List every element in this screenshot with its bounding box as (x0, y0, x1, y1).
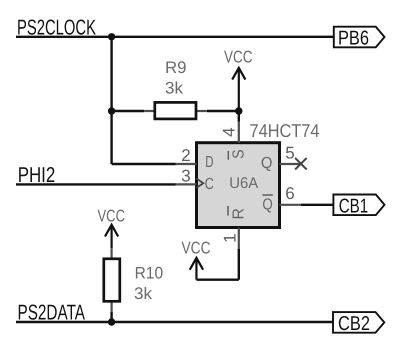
resistor R10 (104, 248, 120, 312)
wire (238, 249, 240, 280)
svg-text:U6A: U6A (229, 175, 259, 192)
wire (238, 111, 240, 122)
svg-text:S: S (231, 149, 248, 159)
svg-text:R10: R10 (135, 264, 164, 283)
wire (207, 110, 239, 112)
wire (112, 163, 176, 165)
svg-text:VCC: VCC (98, 207, 126, 226)
svg-text:PB6: PB6 (338, 27, 369, 49)
svg-text:R9: R9 (165, 58, 187, 77)
flip-flop U6A body (197, 143, 280, 228)
pin name S with overline (228, 149, 247, 159)
svg-text:74HCT74: 74HCT74 (250, 120, 320, 141)
wire (112, 110, 145, 112)
svg-text:3: 3 (181, 167, 190, 186)
svg-text:6: 6 (285, 184, 294, 203)
pin 3 C stub (176, 183, 197, 185)
power VCC middle (182, 238, 211, 279)
svg-text:D: D (205, 154, 213, 171)
pin 6 Qbar stub (280, 204, 301, 206)
wire (16, 321, 333, 323)
svg-text:R: R (231, 208, 248, 220)
pin name Qbar (262, 195, 272, 213)
junction (108, 33, 115, 40)
power VCC left (98, 207, 126, 249)
power VCC top (224, 48, 253, 112)
svg-text:5: 5 (285, 144, 294, 163)
pin 4 S stub (238, 122, 240, 143)
junction (108, 107, 115, 114)
pin 5 Q stub (280, 163, 301, 165)
svg-text:1: 1 (221, 233, 240, 242)
wire (110, 37, 112, 164)
wire (110, 312, 112, 322)
wire (16, 183, 176, 185)
svg-text:4: 4 (220, 127, 239, 136)
svg-text:VCC: VCC (224, 48, 253, 67)
svg-text:3k: 3k (134, 284, 153, 303)
svg-text:C: C (205, 176, 214, 193)
global label CB2 (333, 312, 384, 335)
svg-text:CB1: CB1 (339, 196, 369, 218)
resistor R9 (144, 102, 207, 119)
global label PB6 (334, 27, 385, 50)
no-connect X (295, 158, 307, 170)
svg-text:Q: Q (262, 196, 272, 213)
svg-text:VCC: VCC (182, 238, 211, 257)
svg-text:CB2: CB2 (338, 313, 370, 335)
clock triangle (197, 179, 204, 188)
svg-text:2: 2 (181, 146, 190, 165)
pin 2 D stub (176, 163, 197, 165)
pin name R with overline (228, 206, 248, 220)
junction (108, 318, 115, 325)
svg-text:Q: Q (261, 155, 273, 172)
svg-text:3k: 3k (165, 79, 184, 98)
global label CB1 (333, 195, 384, 218)
wire (301, 204, 334, 206)
wire (196, 279, 238, 281)
pin 1 R stub (238, 228, 240, 249)
junction (235, 107, 242, 114)
wire (16, 36, 334, 38)
